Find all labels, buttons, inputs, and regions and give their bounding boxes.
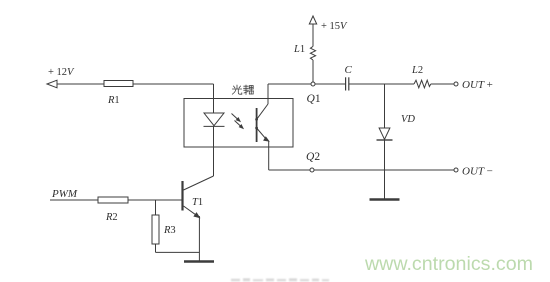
svg-text:PWM: PWM bbox=[51, 188, 78, 200]
svg-text:+ 12V: + 12V bbox=[48, 67, 75, 78]
svg-text:R3: R3 bbox=[163, 225, 176, 236]
svg-text:OUT −: OUT − bbox=[462, 166, 493, 178]
svg-text:L1: L1 bbox=[293, 44, 305, 55]
svg-text:Q1: Q1 bbox=[307, 93, 321, 105]
svg-text:R2: R2 bbox=[105, 212, 118, 223]
svg-text:VD: VD bbox=[401, 114, 415, 125]
svg-text:T1: T1 bbox=[192, 197, 203, 208]
svg-text:Q2: Q2 bbox=[306, 151, 320, 163]
svg-text:L2: L2 bbox=[411, 65, 423, 76]
svg-text:www.cntronics.com: www.cntronics.com bbox=[364, 254, 533, 275]
svg-text:+ 15V: + 15V bbox=[321, 21, 348, 32]
svg-text:R1: R1 bbox=[107, 95, 120, 106]
svg-text:OUT +: OUT + bbox=[462, 79, 493, 91]
svg-text:C: C bbox=[345, 64, 353, 76]
